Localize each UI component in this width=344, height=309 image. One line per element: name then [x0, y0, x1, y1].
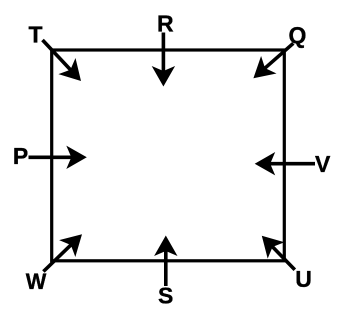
square frame [52, 50, 285, 261]
svg-text:U: U [295, 266, 312, 292]
svg-text:W: W [26, 269, 47, 294]
svg-text:R: R [157, 11, 174, 37]
arrow R (top, pointing down into square) [152, 33, 175, 87]
arrow P (left, pointing right into square) [29, 146, 87, 169]
arrow U (bottom-right corner, pointing up-left into square) [253, 228, 294, 270]
svg-text:P: P [13, 143, 28, 169]
arrow S (bottom, pointing up into square) [154, 236, 177, 287]
arrow Q (top-right corner, pointing down-left into square) [246, 43, 294, 87]
arrow V (right, pointing left into square) [255, 152, 315, 175]
svg-text:V: V [315, 151, 331, 177]
svg-text:S: S [158, 283, 173, 309]
svg-text:T: T [28, 22, 42, 48]
arrow W (bottom-left corner, pointing up-right into square) [43, 226, 90, 272]
arrow T (top-left corner, pointing down-right into square) [43, 40, 90, 89]
